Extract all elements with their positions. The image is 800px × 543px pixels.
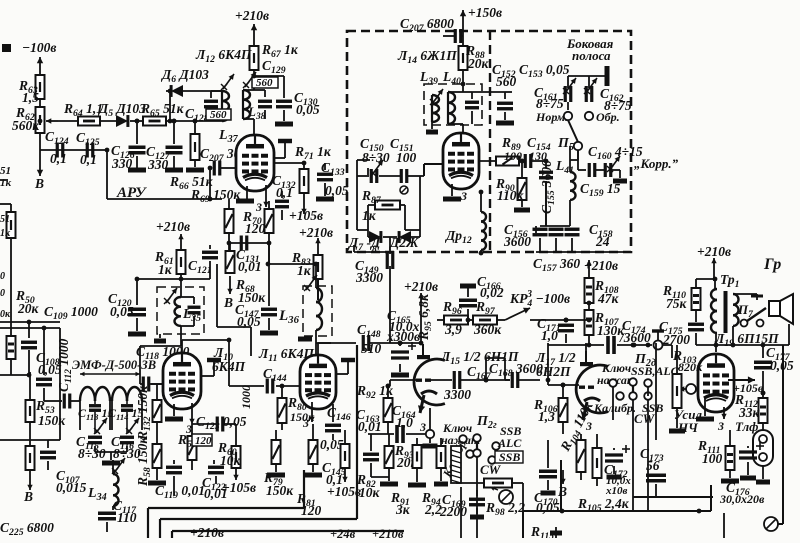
coil L37 [218, 91, 239, 145]
resistor R87 [361, 188, 400, 223]
coil L40 [448, 84, 463, 133]
resistor R94 [421, 438, 448, 517]
capacitor C207a [200, 146, 241, 176]
svg-text:51: 51 [0, 214, 10, 225]
svg-text:150к: 150к [266, 483, 294, 498]
svg-text:1,3: 1,3 [538, 409, 555, 424]
choke Dr12 [444, 192, 486, 255]
grid arrow L19 +105V [728, 376, 764, 395]
svg-text:CW: CW [480, 462, 502, 477]
cathode L10 [165, 404, 183, 419]
svg-text:/3600: /3600 [619, 330, 651, 345]
switch contacts Norm Obr [535, 110, 620, 124]
capacitor C163 [356, 407, 389, 477]
resistor R80 [278, 384, 316, 430]
coil L36 [278, 264, 322, 330]
svg-text:2200: 2200 [439, 504, 467, 519]
resistor R92 [356, 383, 394, 434]
dashed box L35 [157, 287, 204, 334]
plate wire L15 [421, 343, 423, 355]
corner mark [2, 44, 11, 52]
switch contact C175 [652, 331, 677, 358]
supply +210V R108 [584, 258, 618, 278]
dashed box L36 [303, 286, 332, 336]
svg-text:47к: 47к [597, 291, 620, 306]
svg-text:В: В [34, 176, 44, 191]
left edge stub top [0, 165, 12, 189]
wire grid L11 from C144 [301, 385, 303, 387]
svg-text:1к: 1к [0, 228, 11, 239]
svg-text:0,05: 0,05 [325, 183, 349, 198]
wire [354, 245, 390, 343]
svg-text:1,5: 1,5 [22, 90, 39, 105]
svg-text:+210в: +210в [190, 525, 224, 538]
svg-text:6Н2П: 6Н2П [536, 364, 571, 379]
svg-text:0к: 0к [0, 309, 11, 320]
capacitor C120 [108, 277, 146, 334]
capacitor C171 [537, 316, 574, 343]
bus bottom 3 [172, 531, 404, 538]
wire top left bus [0, 322, 60, 440]
resistor R103 [672, 348, 703, 418]
node B left [23, 478, 33, 504]
resistor R132 vert text [135, 384, 162, 444]
capacitor C125 [76, 130, 100, 167]
svg-text:+210в: +210в [404, 279, 438, 294]
svg-text:3: 3 [460, 189, 467, 203]
wire speaker bus [696, 324, 789, 352]
capacitor C166 [459, 274, 504, 322]
supply +210V [235, 8, 269, 46]
grid wire L10 [150, 383, 163, 385]
wire [462, 70, 464, 84]
pin3 L19 [717, 407, 727, 433]
svg-text:−100в: −100в [22, 40, 56, 55]
cathode gnd L12 [236, 186, 254, 201]
junction dots center [38, 74, 766, 396]
diode D7 [347, 231, 381, 255]
svg-text:33к: 33к [738, 405, 761, 420]
svg-text:+210в: +210в [156, 219, 190, 234]
diode D8 [388, 231, 419, 250]
grid return L14 [424, 164, 443, 176]
svg-text:„Корр.”: „Корр.” [634, 156, 679, 171]
resistor R68 [226, 243, 267, 305]
resistor R83 [291, 250, 323, 300]
resistor R95 vert [416, 293, 434, 341]
svg-text:В: В [223, 295, 233, 310]
supply -100V [22, 40, 56, 75]
wire kr4 to L17 [530, 319, 589, 321]
switch key L17 [597, 361, 636, 387]
label tube L19 [714, 331, 779, 349]
svg-text:56: 56 [646, 458, 660, 473]
half tube L17 [576, 351, 608, 420]
capacitor C145 [322, 430, 350, 487]
resistor R111 [697, 430, 739, 481]
switch KR4 [505, 289, 570, 320]
diode D5 [97, 101, 146, 127]
resistor R60 [217, 424, 242, 480]
svg-text:+150в: +150в [468, 5, 502, 20]
screen L11 [336, 360, 355, 374]
coil L35 [164, 288, 201, 326]
svg-text:х10в: х10в [605, 485, 628, 497]
svg-text:х300в: х300в [386, 329, 420, 344]
svg-text:20к: 20к [17, 301, 40, 316]
screen bypass L12 [274, 141, 292, 158]
node B mid [223, 276, 233, 310]
wire L36 top [217, 264, 316, 356]
svg-text:150к: 150к [290, 410, 315, 424]
supply +210V C165 [400, 279, 438, 343]
gnd korr [613, 179, 627, 184]
transformer Tr1 [711, 277, 739, 333]
capacitor C156 [503, 222, 536, 249]
resistor R112 [734, 391, 768, 423]
resistor R59 body [177, 424, 212, 470]
capacitor C131 [227, 236, 272, 275]
wire bottom right vert [723, 513, 725, 538]
tube L19 [698, 354, 734, 412]
resistor R98 [484, 479, 525, 519]
resistor R69 [190, 168, 241, 205]
resistor R82 label [356, 472, 381, 500]
supply +150V [460, 5, 502, 46]
wire sideband bottom [536, 251, 631, 253]
dashed divider [489, 31, 491, 252]
svg-text:Тлф: Тлф [735, 419, 758, 434]
plate L17 wire [585, 343, 587, 362]
wire L35 down [140, 279, 181, 384]
resistor R70 [242, 201, 274, 243]
resistor R96 [437, 299, 473, 337]
capacitor C112 [56, 338, 80, 408]
gnd key L15 [423, 438, 438, 446]
label SSB CW L17 [634, 401, 663, 426]
svg-text:51: 51 [0, 165, 11, 177]
switch P7 [733, 294, 766, 327]
supply +105V R71 [289, 193, 323, 223]
left stub resistor [0, 204, 16, 239]
resistor R50 [0, 238, 40, 375]
EMF filter coil 1 [80, 387, 110, 430]
svg-text:1к: 1к [362, 208, 377, 223]
capacitor C127 [146, 119, 183, 172]
bus right bottom [523, 460, 713, 538]
capacitor C168 [486, 361, 543, 388]
tuning arrow L39 [430, 89, 443, 105]
svg-text:560к: 560к [12, 118, 40, 133]
resistor R103 top wire [672, 345, 677, 374]
svg-text:3к: 3к [395, 502, 411, 517]
resistor R105 body [577, 434, 630, 514]
resistor R104 [557, 398, 599, 480]
wire bottom left [0, 372, 62, 440]
capacitor C158 [565, 200, 613, 252]
svg-text:560: 560 [210, 109, 227, 121]
svg-text:1к: 1к [0, 177, 12, 189]
left stub caps [0, 271, 11, 320]
dashed box mixer [347, 31, 631, 252]
capacitor C151 [390, 136, 417, 194]
resistor kalibr body [451, 446, 461, 483]
svg-text:3600: 3600 [503, 234, 531, 249]
svg-text:3: 3 [419, 420, 426, 434]
gnd R103 [669, 418, 685, 431]
svg-text:30,0х20в: 30,0х20в [719, 492, 765, 506]
plate L11 wire [318, 343, 356, 355]
svg-text:24: 24 [595, 234, 610, 249]
capacitor C121 [181, 245, 218, 279]
supply +105V L11 [327, 484, 361, 499]
pin3 L17 [585, 419, 592, 433]
resistor R61 [154, 249, 186, 281]
svg-text:3300: 3300 [443, 387, 471, 402]
svg-text:100: 100 [396, 150, 417, 165]
capacitor C173 [640, 343, 666, 496]
svg-text:+105в: +105в [327, 484, 361, 499]
wire [39, 99, 41, 150]
capacitor C149 [355, 251, 393, 285]
tuning arrow L37 [221, 74, 234, 90]
wire L36 bottom [316, 330, 331, 356]
svg-text:8÷30: 8÷30 [362, 150, 390, 165]
capacitor C153 [496, 62, 570, 123]
svg-text:150к: 150к [38, 413, 66, 428]
wire to L35 [137, 278, 181, 280]
capacitor C155 [539, 160, 557, 226]
capacitor C115 [76, 418, 107, 461]
capacitor C126 [111, 119, 146, 171]
label SSB ALC [480, 424, 523, 477]
resistor R106 [533, 383, 568, 434]
capacitor C170 [534, 440, 560, 515]
resistor R90 [495, 159, 530, 210]
label +210V bottom [190, 525, 224, 540]
resistor R93 [394, 438, 426, 485]
capacitor C129 [252, 58, 286, 119]
capacitor C150 [360, 136, 390, 183]
svg-text:+210в: +210в [299, 225, 333, 240]
svg-text:SSB: SSB [499, 450, 520, 464]
wire [254, 70, 284, 92]
resistor R63 [18, 75, 45, 105]
svg-text:75к: 75к [666, 296, 688, 311]
wire osc in [357, 160, 424, 176]
svg-text:0,1: 0,1 [276, 185, 293, 200]
svg-text:8÷75: 8÷75 [536, 96, 564, 111]
svg-text:0: 0 [0, 271, 5, 282]
capacitor C109 [21, 304, 98, 377]
wire osc box [357, 176, 420, 230]
wire korr [578, 150, 620, 178]
wire C152 to right [472, 91, 512, 93]
wire R98 [456, 483, 523, 511]
resistor R91 [380, 434, 411, 517]
svg-text:0,1: 0,1 [80, 152, 97, 167]
capacitor C152 body [463, 62, 517, 124]
supply +210V r [299, 225, 333, 255]
svg-text:0,05: 0,05 [536, 500, 560, 515]
svg-text:Калибр.: Калибр. [593, 401, 636, 415]
svg-text:+24в: +24в [330, 527, 356, 538]
wire sideband top [568, 70, 608, 88]
svg-text:0,01: 0,01 [238, 259, 262, 274]
capacitor C133 [302, 160, 349, 199]
capacitor C130 [275, 90, 320, 124]
switch P2d contacts [609, 378, 652, 512]
svg-text:ALC: ALC [497, 436, 522, 450]
label tube L14 [397, 48, 457, 66]
tuning arrow L38 [243, 72, 256, 88]
bus bottom 2 [160, 345, 357, 538]
svg-text:330: 330 [111, 156, 133, 171]
capacitor C128 [185, 91, 231, 124]
resistor R58 vert text [135, 436, 166, 487]
capacitor C147 [235, 243, 278, 333]
resistor R107 [585, 303, 626, 347]
EMF filter coil 2 [112, 387, 142, 430]
capacitor C225 [0, 520, 54, 538]
capacitor C172 [604, 445, 631, 497]
resistor R69 body [225, 199, 234, 243]
capacitor C175 [659, 310, 704, 347]
resistor R53 [26, 372, 67, 440]
switch key L15 [426, 408, 480, 447]
svg-text:820к: 820к [678, 360, 703, 374]
svg-text:АРУ: АРУ [116, 185, 147, 201]
caps C155 C156 C157 bottom [533, 181, 571, 252]
svg-text:1к: 1к [297, 263, 312, 278]
wire [40, 149, 107, 151]
wire AGC down [107, 150, 222, 199]
label L17 [535, 350, 576, 379]
pin3 L11 [302, 402, 315, 430]
cathode L11 [313, 404, 330, 430]
capacitor C108 [36, 326, 62, 401]
svg-text:8: 8 [372, 245, 377, 255]
phone jack [753, 423, 773, 482]
wire bottom bus 1 [106, 198, 108, 200]
svg-text:1000: 1000 [239, 385, 253, 409]
switch P5 [557, 120, 582, 153]
svg-text:0,1: 0,1 [50, 151, 67, 166]
capacitor C124 [45, 129, 69, 166]
svg-text:100: 100 [702, 451, 723, 466]
capacitor C169 [439, 490, 485, 519]
svg-text:0,01: 0,01 [358, 419, 382, 434]
label sideband [566, 36, 614, 63]
svg-text:110: 110 [117, 510, 137, 525]
svg-text:Обр.: Обр. [596, 110, 620, 124]
svg-text:В: В [23, 489, 33, 504]
svg-text:8÷30: 8÷30 [78, 446, 106, 461]
pin 3 of L14 [443, 184, 467, 203]
svg-text:120: 120 [195, 435, 212, 447]
grid L15 wire [386, 343, 416, 388]
svg-text:3: 3 [717, 419, 724, 433]
gnd bar sideband [605, 66, 610, 86]
supply +105V L10 [222, 480, 256, 495]
wire [368, 205, 405, 230]
label tube L12 [195, 47, 252, 65]
tube L14 [443, 133, 479, 189]
resistor R71 [274, 144, 332, 193]
svg-text:10к: 10к [359, 485, 381, 500]
capacitor C117 L34 [87, 458, 137, 532]
svg-text:0,05: 0,05 [770, 358, 794, 373]
svg-text:3300: 3300 [355, 270, 383, 285]
label kalibr L17 [593, 401, 636, 415]
capacitor C176 [719, 442, 765, 506]
node B out [34, 150, 44, 191]
svg-text:+210в: +210в [372, 527, 404, 538]
tube L10 [163, 353, 201, 409]
label L39 L40 [419, 69, 461, 87]
svg-text:120: 120 [245, 221, 266, 236]
capacitor C177 [754, 343, 794, 393]
resistor R81 [296, 430, 322, 518]
supply +210V out [697, 244, 731, 281]
resistor R89 [479, 135, 522, 166]
label kalibr L15 [440, 435, 471, 480]
capacitor C159 C160 [580, 144, 643, 199]
dashed box L39L40 [424, 84, 482, 125]
plate L10 wire [182, 340, 229, 353]
resistor R97 [473, 299, 505, 337]
svg-text:20к: 20к [467, 56, 490, 71]
wire C168 up [486, 358, 510, 380]
capacitor C174 [548, 318, 652, 354]
label Tlf [735, 419, 758, 434]
cathode gnd L19 [696, 398, 714, 419]
svg-text:1к: 1к [158, 262, 173, 277]
wire [229, 243, 269, 262]
coil L41 [555, 146, 578, 200]
capacitor C107 [30, 440, 87, 495]
left edge wires [0, 203, 11, 205]
label tube L11 [258, 346, 314, 364]
svg-text:3: 3 [255, 200, 262, 214]
switch P2d [631, 352, 680, 378]
pin 3 of L12 [255, 185, 269, 214]
tube L12 [236, 135, 274, 191]
svg-text:Гр: Гр [763, 256, 781, 273]
capacitor C122 [202, 460, 228, 501]
svg-text:+210в: +210в [697, 244, 731, 259]
bus bottom 1 [148, 470, 304, 538]
capacitor C167 [429, 364, 492, 402]
resistor R79 [263, 430, 294, 498]
capacitor C114 [108, 401, 143, 434]
svg-text:3: 3 [526, 289, 532, 300]
svg-text:Норм.: Норм. [535, 110, 568, 124]
speaker Gr [769, 294, 793, 324]
capacitor C132 [272, 173, 296, 220]
resistor R108 [585, 278, 620, 306]
gnd EMF [95, 452, 127, 463]
svg-text:0: 0 [0, 288, 5, 299]
svg-text:CW: CW [634, 411, 656, 426]
switch P2g [476, 414, 497, 431]
switch P2g contacts [459, 434, 500, 538]
svg-text:560: 560 [256, 77, 273, 89]
resistor R66 [169, 119, 214, 192]
capacitor C161 [534, 78, 576, 111]
svg-text:0,05: 0,05 [110, 304, 134, 319]
capacitor C164 [368, 403, 426, 443]
